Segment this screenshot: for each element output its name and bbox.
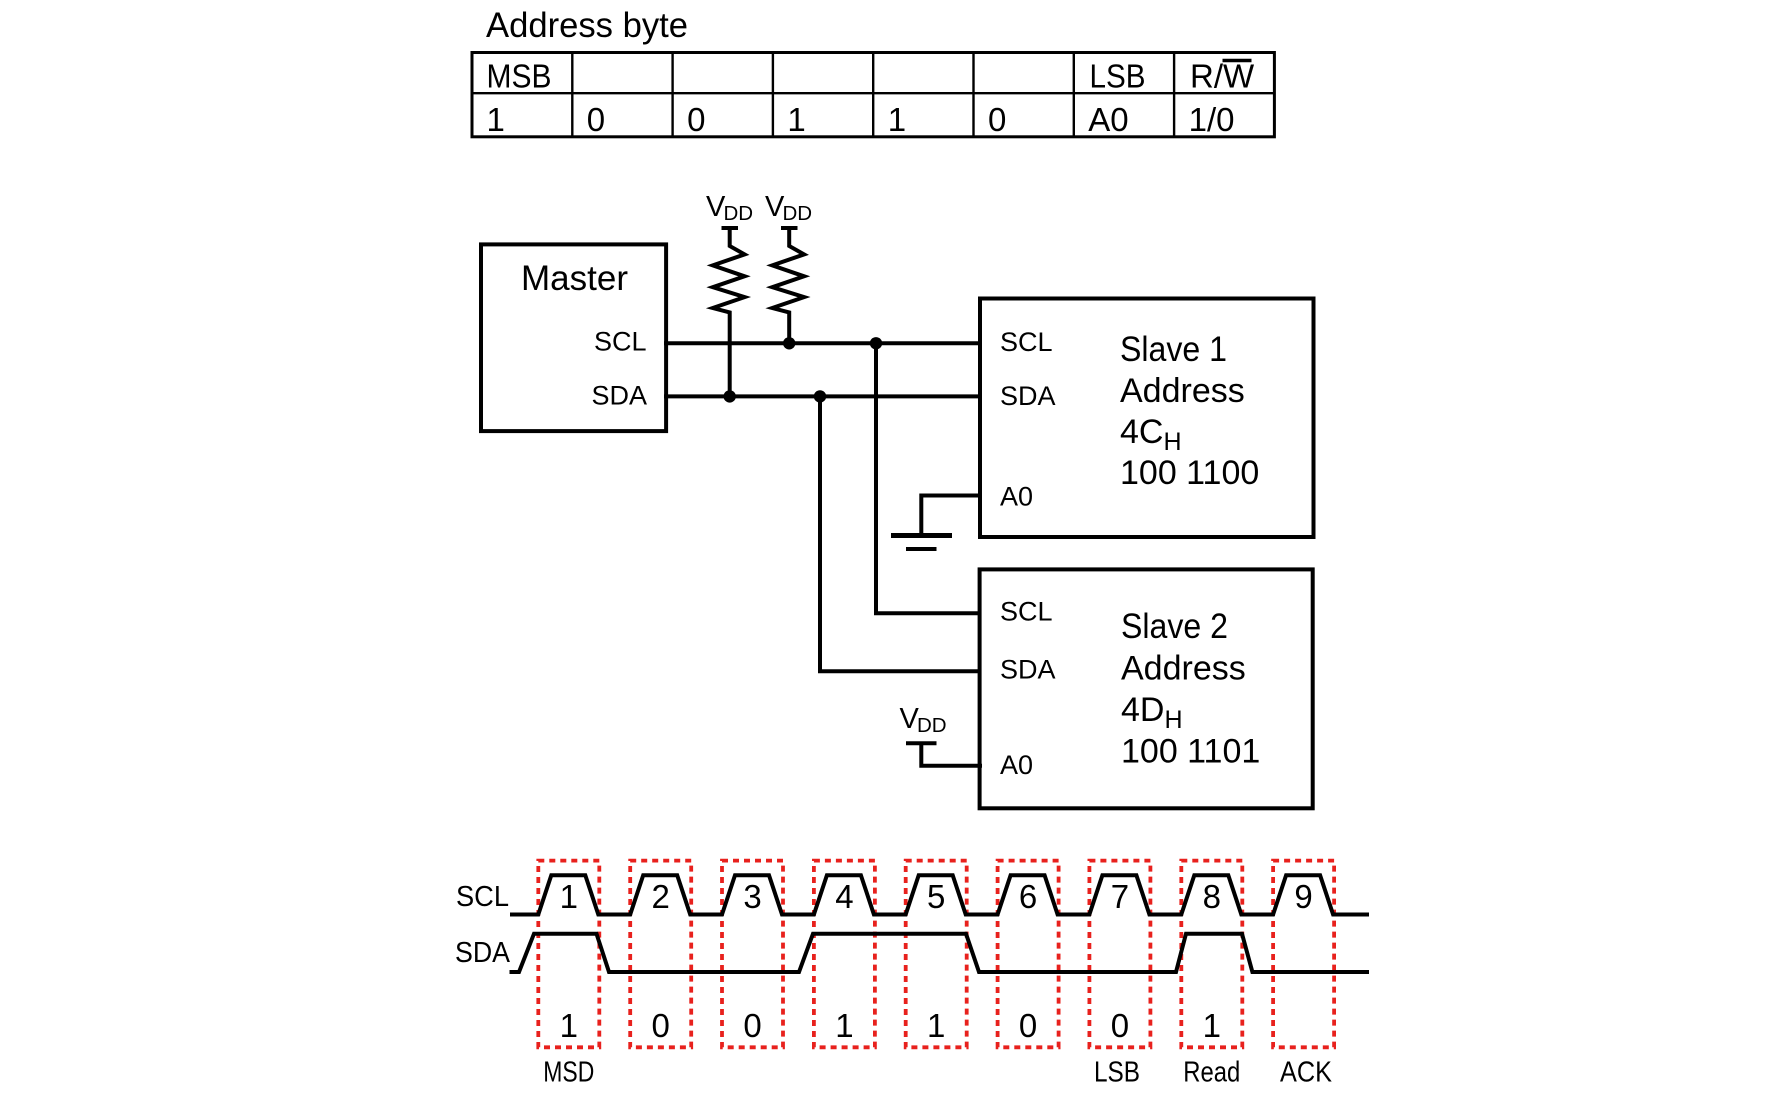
svg-text:A0: A0 <box>1088 101 1128 138</box>
SDA data waveform <box>510 934 1370 972</box>
svg-text:0: 0 <box>652 1007 670 1044</box>
VDD supply bar 1 <box>722 226 739 230</box>
svg-text:SDA: SDA <box>455 937 511 969</box>
table header cell R/W-bar <box>1190 58 1255 95</box>
bit cell 8 (red dashed) <box>1181 861 1242 1048</box>
svg-text:7: 7 <box>1111 878 1129 915</box>
slave 2 block <box>980 569 1313 808</box>
svg-text:100 1101: 100 1101 <box>1121 733 1260 771</box>
svg-text:DD: DD <box>724 202 754 225</box>
VDD supply label 2 <box>765 191 812 225</box>
svg-text:0: 0 <box>1111 1007 1129 1044</box>
svg-text:SCL: SCL <box>1000 597 1053 627</box>
VDD supply label 1 <box>706 191 753 225</box>
svg-text:R/W: R/W <box>1190 58 1255 95</box>
svg-text:0: 0 <box>988 101 1006 138</box>
slave 2 text: name and address <box>1121 607 1260 771</box>
svg-text:1/0: 1/0 <box>1189 101 1235 138</box>
bit cell 5 (red dashed) <box>906 861 967 1048</box>
svg-text:ACK: ACK <box>1280 1057 1332 1089</box>
svg-text:0: 0 <box>687 101 705 138</box>
svg-text:1: 1 <box>560 878 578 915</box>
svg-text:6: 6 <box>1019 878 1037 915</box>
svg-text:Read: Read <box>1183 1057 1240 1089</box>
wire: slave 1 A0 to ground <box>921 496 982 535</box>
svg-text:LSB: LSB <box>1090 58 1146 95</box>
bit cell 1 (red dashed) <box>538 861 599 1048</box>
bit cell 6 (red dashed) <box>998 861 1059 1048</box>
svg-text:1: 1 <box>787 101 805 138</box>
svg-text:1: 1 <box>560 1007 578 1044</box>
svg-text:2: 2 <box>652 878 670 915</box>
table data row: 1 0 0 1 1 0 A0 1/0 <box>487 101 1235 138</box>
svg-text:1: 1 <box>1203 1007 1221 1044</box>
svg-text:DD: DD <box>783 202 813 225</box>
svg-text:Slave 2: Slave 2 <box>1121 607 1228 646</box>
slave 1 text: name and address <box>1120 330 1259 492</box>
svg-text:100 1100: 100 1100 <box>1120 454 1259 492</box>
bit cell 7 (red dashed) <box>1089 861 1150 1048</box>
svg-text:1: 1 <box>835 1007 853 1044</box>
svg-text:8: 8 <box>1203 878 1221 915</box>
svg-text:9: 9 <box>1294 878 1312 915</box>
wire: SDA bus (master to slave 1) <box>664 394 982 398</box>
svg-text:1: 1 <box>888 101 906 138</box>
ground symbol (slave 1 A0) <box>891 536 952 550</box>
svg-text:SDA: SDA <box>1000 381 1056 411</box>
SCL clock waveform <box>510 875 1369 914</box>
bit cell 2 (red dashed) <box>630 861 691 1048</box>
table: address byte grid <box>472 53 1274 137</box>
wire: SCL branch to slave 2 <box>876 343 980 613</box>
svg-text:3: 3 <box>743 878 761 915</box>
wire: SDA branch to slave 2 <box>820 396 980 671</box>
junction dot: SDA branch node <box>814 390 826 402</box>
bit cell 4 (red dashed) <box>814 861 875 1048</box>
slave 1 block <box>980 299 1314 538</box>
junction dot: SCL branch node <box>870 337 882 349</box>
svg-text:SCL: SCL <box>1000 327 1053 357</box>
svg-text:Slave 1: Slave 1 <box>1120 330 1227 369</box>
clock pulse numbers 1-9 <box>560 878 1313 915</box>
junction dot: R1 to SDA <box>724 390 736 402</box>
svg-text:MSD: MSD <box>543 1057 594 1089</box>
svg-text:Address: Address <box>1120 372 1245 410</box>
resistor R1 (pull-up on SDA) <box>713 228 745 396</box>
svg-text:0: 0 <box>1019 1007 1037 1044</box>
svg-text:5: 5 <box>927 878 945 915</box>
svg-text:SDA: SDA <box>1000 655 1056 685</box>
svg-text:SDA: SDA <box>591 381 647 411</box>
svg-text:MSB: MSB <box>487 58 552 95</box>
bit values 1 0 0 1 1 0 0 1 <box>560 1007 1221 1044</box>
svg-text:1: 1 <box>487 101 505 138</box>
svg-text:A0: A0 <box>1000 750 1033 780</box>
VDD supply bar (slave 2 A0) <box>906 741 937 745</box>
bit cell 3 (red dashed) <box>722 861 783 1048</box>
svg-text:LSB: LSB <box>1094 1057 1140 1089</box>
svg-text:Master: Master <box>521 258 628 298</box>
master block U-MASTER <box>481 244 666 431</box>
svg-text:Address byte: Address byte <box>486 5 688 45</box>
svg-text:SCL: SCL <box>594 327 647 357</box>
svg-text:SCL: SCL <box>456 881 509 913</box>
svg-text:DD: DD <box>917 714 947 737</box>
wire: VDD to slave 2 A0 <box>921 743 982 765</box>
resistor R2 (pull-up on SCL) <box>772 228 804 343</box>
svg-text:0: 0 <box>587 101 605 138</box>
svg-text:Address: Address <box>1121 650 1246 688</box>
svg-text:1: 1 <box>927 1007 945 1044</box>
VDD supply bar 2 <box>781 226 798 230</box>
bit cell 9 (red dashed) <box>1273 861 1334 1048</box>
svg-text:0: 0 <box>743 1007 761 1044</box>
svg-text:4: 4 <box>835 878 853 915</box>
wire: SCL bus (master to slave 1) <box>664 341 982 345</box>
svg-text:A0: A0 <box>1000 482 1033 512</box>
junction dot: R2 to SCL <box>783 337 795 349</box>
VDD supply label (slave 2 A0) <box>900 703 947 737</box>
